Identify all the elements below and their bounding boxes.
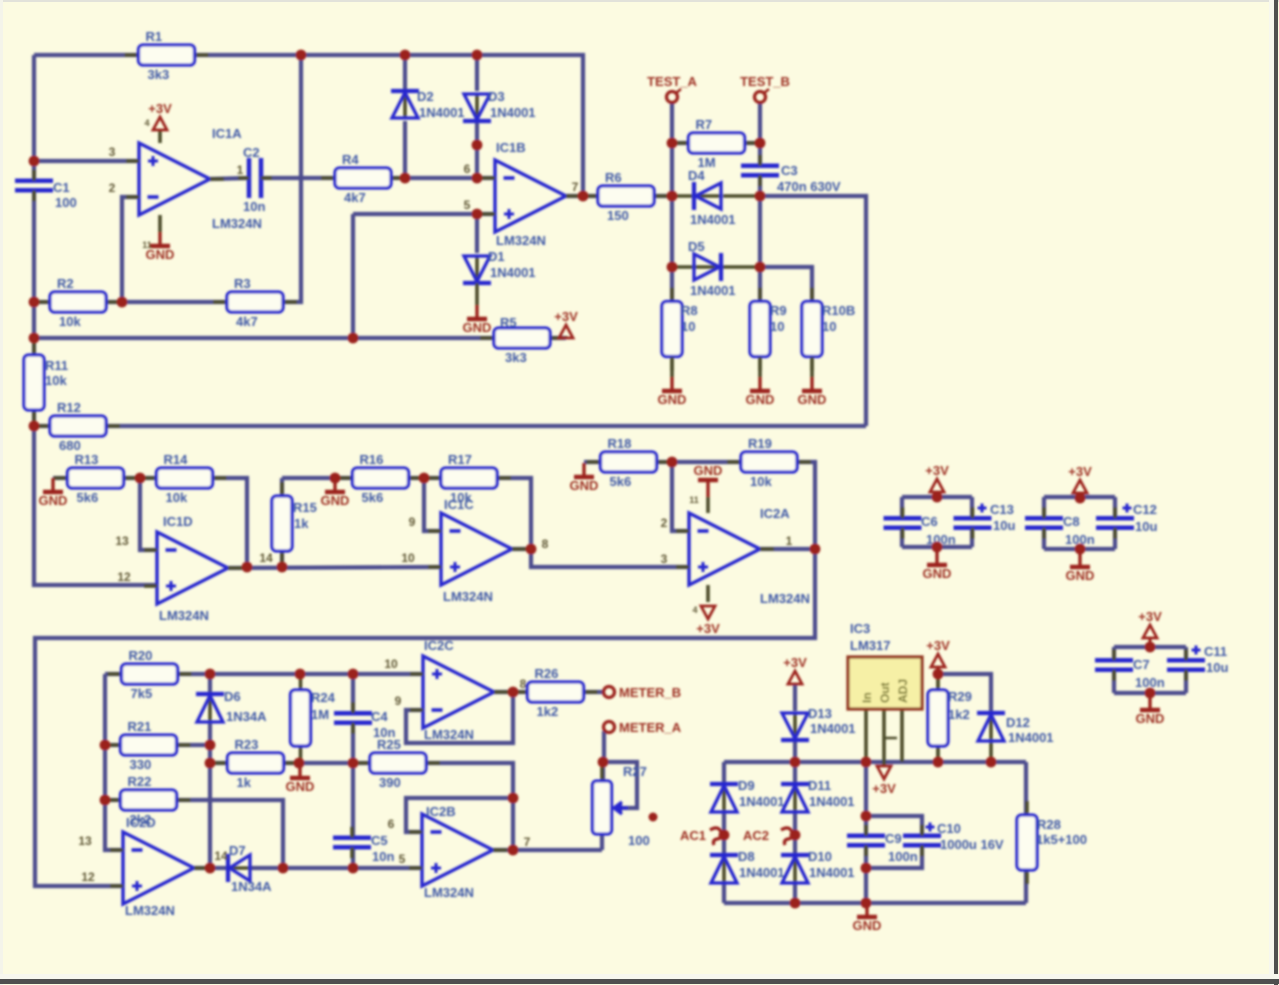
- resistor R13 5k6: [54, 452, 138, 505]
- wire C6C13 box top: [902, 495, 972, 499]
- svg-text:10: 10: [681, 319, 695, 334]
- junction at 405,55: [400, 50, 411, 61]
- bottom dark border: [0, 979, 1279, 984]
- pin number 1: [237, 163, 244, 177]
- +3V supply C7 block: [1138, 609, 1162, 638]
- svg-text:7: 7: [524, 835, 531, 849]
- ground bottom rail: [853, 903, 882, 933]
- svg-text:1N4001: 1N4001: [739, 865, 785, 880]
- ground R23/R24: [286, 764, 315, 794]
- +3V stub IC2A: [706, 585, 710, 602]
- svg-text:R28: R28: [1037, 817, 1061, 832]
- capacitor C2 10n: [238, 145, 272, 214]
- junction at 795,762: [790, 757, 801, 768]
- wire IC2D out to D7: [194, 866, 228, 870]
- svg-text:TEST_A: TEST_A: [647, 74, 697, 89]
- wire C8 lower: [1042, 528, 1046, 549]
- resistor R23 1k: [214, 737, 298, 790]
- svg-text:R17: R17: [448, 452, 472, 467]
- +3V supply C6 block: [925, 463, 949, 492]
- junction at 513,798: [508, 793, 519, 804]
- svg-text:9: 9: [409, 515, 416, 529]
- svg-text:14: 14: [214, 849, 228, 863]
- svg-text:1N4001: 1N4001: [490, 105, 536, 120]
- ground R8: [658, 377, 687, 407]
- svg-text:12: 12: [117, 570, 131, 584]
- wire mid col x210: [208, 745, 212, 868]
- junction at 140,478: [135, 473, 146, 484]
- wire R15 bottom: [280, 551, 284, 567]
- junction at 105,800: [100, 795, 111, 806]
- svg-text:1M: 1M: [311, 707, 329, 722]
- diode D2 1N4001: [391, 89, 465, 120]
- wire R12 left: [34, 424, 50, 428]
- wire bridge left col b: [722, 812, 726, 855]
- svg-text:10u: 10u: [1135, 519, 1157, 534]
- junction at 795,903: [790, 898, 801, 909]
- svg-text:GND: GND: [694, 463, 723, 478]
- connector METER_A: [604, 720, 682, 735]
- wire R4 to IC1B pin6: [390, 176, 495, 180]
- wire IC2A out: [760, 547, 815, 551]
- wire R13 gnd stub row: [53, 476, 68, 480]
- svg-text:LM324N: LM324N: [125, 903, 175, 918]
- svg-text:+3V: +3V: [925, 463, 949, 478]
- resistor R11 10k: [24, 341, 68, 424]
- junction at 1150,647: [1145, 642, 1156, 653]
- svg-text:R21: R21: [128, 719, 152, 734]
- junction at 405,178: [400, 173, 411, 184]
- junction at 1150,693: [1145, 688, 1156, 699]
- wire R21 left: [105, 743, 121, 747]
- +3V stub IC1A: [158, 130, 162, 143]
- junction at 531,549: [526, 544, 537, 555]
- svg-text:C11: C11: [1204, 644, 1227, 659]
- svg-text:1N4001: 1N4001: [809, 794, 855, 809]
- wire R13R14 junction down to pin13: [140, 478, 157, 550]
- resistor R20 7k5: [108, 648, 192, 701]
- wire top rail: [34, 53, 139, 57]
- pin number 3: [109, 145, 116, 159]
- capacitor C13 10u: [954, 502, 1016, 539]
- svg-text:12: 12: [81, 870, 95, 884]
- capacitor C10: [903, 823, 941, 857]
- svg-text:R12: R12: [57, 400, 81, 415]
- resistor R29 1k2: [928, 676, 972, 760]
- wire C10 branch top: [866, 816, 922, 836]
- resistor R24 1M: [291, 676, 336, 760]
- svg-text:10: 10: [770, 319, 784, 334]
- svg-text:+3V: +3V: [554, 309, 578, 324]
- svg-text:10: 10: [401, 551, 415, 565]
- svg-text:1N34A: 1N34A: [226, 709, 267, 724]
- svg-text:GND: GND: [570, 478, 599, 493]
- junction at 672,196: [667, 191, 678, 202]
- junction at 513,692: [508, 687, 519, 698]
- svg-text:C10: C10: [937, 821, 961, 836]
- svg-text:C4: C4: [371, 709, 388, 724]
- wire R2 R3 row: [34, 300, 50, 304]
- potentiometer R27 100: [593, 764, 650, 848]
- ground stub R10B: [810, 357, 814, 377]
- svg-text:D13: D13: [808, 706, 832, 721]
- pin number 6: [464, 162, 471, 176]
- svg-text:10n: 10n: [243, 199, 265, 214]
- wire R15 top: [280, 478, 284, 496]
- svg-text:11: 11: [142, 240, 152, 250]
- wire R2 to R3: [106, 300, 227, 304]
- svg-text:LM324N: LM324N: [443, 589, 493, 604]
- wire R18 gnd stub row: [584, 460, 601, 464]
- svg-text:GND: GND: [286, 779, 315, 794]
- svg-text:D9: D9: [738, 778, 755, 793]
- pin number 9: [395, 694, 402, 708]
- svg-text:GND: GND: [658, 392, 687, 407]
- wire R14 to IC1D out col: [212, 478, 247, 567]
- +3V stub D13: [794, 683, 797, 686]
- wire bridge mid col c: [793, 883, 797, 903]
- wire IC2C pin9 loop: [406, 692, 513, 743]
- svg-text:5k6: 5k6: [77, 490, 99, 505]
- junction at 477,178: [472, 173, 483, 184]
- wire IC2A pin2 drop: [672, 462, 689, 531]
- junction at 34,426: [29, 421, 40, 432]
- wire R7 right: [743, 141, 760, 145]
- wire R22 left: [105, 798, 121, 802]
- wire bottom rail y903: [724, 901, 1026, 905]
- junction at 299,763: [294, 758, 305, 769]
- +3V stub C8: [1079, 493, 1082, 497]
- capacitor C11 10u: [1167, 644, 1228, 681]
- svg-text:R26: R26: [535, 666, 559, 681]
- ground stub R9: [758, 357, 762, 377]
- svg-text:IC3: IC3: [850, 621, 870, 636]
- wire R6 to TEST_A col: [654, 194, 672, 198]
- resistor R15 1k: [272, 482, 317, 565]
- svg-text:R10B: R10B: [822, 303, 855, 318]
- ground IC2A: [694, 463, 723, 513]
- junction at 672,143: [667, 138, 678, 149]
- svg-text:R4: R4: [342, 152, 359, 167]
- wire left vertical upper: [32, 55, 36, 181]
- capacitor C1 100: [15, 170, 77, 210]
- svg-text:D5: D5: [688, 239, 705, 254]
- wire C13 upper: [970, 497, 974, 518]
- diode D5 1N4001: [688, 239, 736, 298]
- junction at 34,338: [29, 333, 40, 344]
- svg-text:5k6: 5k6: [610, 474, 632, 489]
- wire TEST_B column upper: [758, 102, 762, 166]
- svg-text:D8: D8: [738, 849, 755, 864]
- svg-text:R29: R29: [948, 689, 972, 704]
- diode D11 1N4001: [781, 778, 855, 812]
- diode D12 1N4001: [977, 713, 1054, 745]
- svg-text:+3V: +3V: [148, 101, 172, 116]
- svg-text:+3V: +3V: [926, 638, 950, 653]
- pin number 8: [542, 537, 549, 551]
- ground IC1A: [146, 232, 175, 262]
- wire R27 bottom stub: [600, 834, 604, 850]
- svg-text:4k7: 4k7: [236, 314, 258, 329]
- op-amp IC1B: [482, 140, 580, 248]
- wire C5 top: [351, 763, 355, 838]
- op-amp IC2D: [110, 815, 208, 918]
- svg-text:4: 4: [144, 118, 149, 128]
- svg-text:GND: GND: [923, 566, 952, 581]
- svg-text:1k: 1k: [237, 775, 252, 790]
- pin number 12: [81, 870, 95, 884]
- wire R18 to R19: [656, 460, 742, 464]
- junction at 335,478: [330, 473, 341, 484]
- junction at 937,547: [932, 542, 943, 553]
- junction at 866,903: [861, 898, 872, 909]
- wire C4 top: [351, 674, 355, 713]
- wire R3 to top rail: [283, 55, 301, 302]
- svg-text:680: 680: [59, 438, 81, 453]
- svg-text:1N4001: 1N4001: [419, 105, 465, 120]
- svg-text:1k2: 1k2: [948, 707, 970, 722]
- ground C8 block: [1066, 553, 1095, 583]
- wire IC1B out to R6: [566, 194, 599, 198]
- svg-text:1000u 16V: 1000u 16V: [940, 837, 1004, 852]
- svg-text:+3V: +3V: [783, 655, 807, 670]
- svg-text:10u: 10u: [1206, 660, 1228, 675]
- svg-text:1N4001: 1N4001: [690, 212, 736, 227]
- wire left vertical lower to IC1D pin12: [34, 410, 157, 585]
- wire D2 top: [403, 55, 407, 91]
- ground stub IC1A: [158, 215, 162, 232]
- wire top rail right of R1: [194, 55, 583, 196]
- capacitor C9 100n: [847, 825, 918, 864]
- svg-text:13: 13: [115, 534, 129, 548]
- pin number 13: [78, 834, 92, 848]
- junction at 938,674: [933, 669, 944, 680]
- wire D3 top: [475, 55, 479, 91]
- wire C12 lower: [1113, 528, 1117, 549]
- svg-text:GND: GND: [321, 493, 350, 508]
- wire D13 bottom: [793, 741, 797, 762]
- left light edge: [0, 0, 3, 985]
- pin number 10: [401, 551, 415, 565]
- svg-text:METER_B: METER_B: [619, 685, 681, 700]
- wire supply rail y762: [724, 760, 1026, 764]
- op-amp IC1D: [144, 514, 242, 623]
- svg-text:IC2C: IC2C: [424, 638, 454, 653]
- svg-text:390: 390: [379, 775, 401, 790]
- wire IC3 Out pin: [882, 709, 886, 766]
- svg-text:R11: R11: [45, 358, 68, 373]
- wire C7C11 box top: [1114, 645, 1186, 649]
- wire IC3 In pin: [864, 709, 868, 762]
- wire C12 upper: [1113, 497, 1117, 518]
- resistor R3 4k7: [213, 276, 297, 329]
- +3V stub C7: [1149, 638, 1152, 647]
- wire R28 to bottom rail: [1024, 870, 1028, 903]
- svg-text:D6: D6: [224, 689, 241, 704]
- ground D1: [463, 305, 492, 335]
- diode D10 1N4001: [781, 849, 855, 883]
- svg-text:C5: C5: [371, 833, 388, 848]
- svg-text:D4: D4: [688, 168, 705, 183]
- wire R17 right down: [496, 478, 689, 567]
- wire D12 bottom: [989, 742, 993, 762]
- pin number 7: [524, 835, 531, 849]
- pin number 11 (IC1A V-): [142, 240, 152, 250]
- svg-text:C7: C7: [1133, 657, 1150, 672]
- svg-text:1N4001: 1N4001: [810, 721, 856, 736]
- svg-text:D1: D1: [488, 249, 505, 264]
- ground R9: [746, 377, 775, 407]
- svg-text:C1: C1: [53, 180, 70, 195]
- svg-text:4k7: 4k7: [344, 190, 366, 205]
- wire In col to C9: [864, 762, 868, 836]
- svg-text:1N4001: 1N4001: [1008, 730, 1054, 745]
- wire C4 bottom: [351, 723, 355, 763]
- svg-text:ADJ: ADJ: [896, 679, 910, 703]
- svg-text:1N34A: 1N34A: [231, 879, 272, 894]
- svg-text:1N4001: 1N4001: [490, 265, 536, 280]
- svg-text:3k3: 3k3: [505, 350, 527, 365]
- capacitor C4 10n: [334, 702, 395, 740]
- svg-text:1: 1: [237, 163, 244, 177]
- wire C8C12 box top: [1044, 495, 1115, 499]
- svg-text:D3: D3: [488, 89, 505, 104]
- svg-text:100: 100: [55, 195, 77, 210]
- resistor R5 3k3: [480, 315, 564, 365]
- junction at 866,868: [861, 863, 872, 874]
- resistor R2 10k: [36, 276, 120, 329]
- svg-text:+3V: +3V: [1138, 609, 1162, 624]
- wire R27 top stub: [601, 762, 605, 781]
- resistor R10B 10: [802, 288, 855, 371]
- op-amp IC2C: [410, 638, 508, 742]
- op-amp IC2B: [409, 804, 507, 900]
- svg-text:R3: R3: [234, 276, 251, 291]
- svg-text:C3: C3: [781, 163, 798, 178]
- svg-text:10k: 10k: [45, 373, 67, 388]
- junction at 353,338: [348, 333, 359, 344]
- wire C7 lower: [1112, 670, 1116, 693]
- +3V supply C8 block: [1068, 464, 1092, 493]
- svg-text:7k5: 7k5: [131, 686, 153, 701]
- pin number 4 (IC2A V+): [692, 605, 697, 615]
- pin number 2: [661, 516, 668, 530]
- svg-text:1k5+100: 1k5+100: [1036, 832, 1087, 847]
- svg-text:In: In: [860, 692, 874, 703]
- wire R20 row: [105, 672, 123, 676]
- wire long row y426: [106, 424, 866, 428]
- junction at 724,835: [719, 830, 730, 841]
- junction at 210,763: [205, 758, 216, 769]
- wire TEST_B column lower: [758, 175, 762, 301]
- pin number 9: [409, 515, 416, 529]
- junction at 424,478: [419, 473, 430, 484]
- pin number 5: [464, 198, 471, 212]
- top light edge: [0, 0, 1279, 2]
- pin number 14: [214, 849, 228, 863]
- svg-text:3: 3: [661, 552, 668, 566]
- pin number 3: [661, 552, 668, 566]
- resistor R28 1k5+100: [1017, 801, 1087, 884]
- resistor R25 390: [356, 737, 440, 790]
- wire D2 bottom: [403, 121, 407, 178]
- svg-text:1k: 1k: [294, 516, 309, 531]
- ground R16: [321, 478, 350, 508]
- wire bridge mid col a: [793, 762, 797, 784]
- svg-text:1N4001: 1N4001: [690, 283, 736, 298]
- resistor R19 10k: [727, 436, 811, 489]
- ground stub D1: [475, 283, 479, 305]
- wire C8C12 box bottom: [1044, 547, 1115, 551]
- svg-text:R8: R8: [681, 303, 698, 318]
- wire left col bottom section: [105, 674, 123, 850]
- wire +3V node to D12: [938, 674, 991, 711]
- resistor R14 10k: [143, 452, 227, 505]
- junction at 583,196: [578, 191, 589, 202]
- svg-text:10u: 10u: [993, 518, 1015, 533]
- op-amp IC1A: [126, 126, 262, 231]
- wire D6 top: [208, 674, 212, 694]
- svg-text:R6: R6: [605, 170, 622, 185]
- resistor R1 3k3: [125, 29, 209, 82]
- svg-text:GND: GND: [798, 392, 827, 407]
- svg-text:9: 9: [395, 694, 402, 708]
- resistor R18 5k6: [587, 436, 671, 489]
- diode D3 1N4001: [463, 89, 536, 121]
- wire D7 to IC2B pin5: [250, 866, 422, 870]
- svg-text:4: 4: [692, 605, 697, 615]
- junction at 760,267: [755, 262, 766, 273]
- wire R26 to METER_B: [583, 690, 604, 694]
- junction at 866,816: [861, 811, 872, 822]
- junction at 815,549: [810, 544, 821, 555]
- svg-text:D7: D7: [229, 843, 246, 858]
- svg-text:3k3: 3k3: [148, 67, 170, 82]
- wire bridge left col a: [722, 762, 726, 784]
- resistor R16 5k6: [339, 452, 423, 505]
- diode D8 1N4001: [710, 849, 785, 883]
- wire C7C11 box bottom: [1114, 691, 1186, 695]
- right white inner edge: [1269, 0, 1274, 985]
- svg-text:R23: R23: [235, 737, 259, 752]
- wire R16 row left: [282, 476, 353, 480]
- diode D9 1N4001: [710, 778, 785, 812]
- ground R18: [570, 463, 599, 493]
- wire C6 lower: [900, 528, 904, 547]
- junction at 937,497: [932, 492, 943, 503]
- svg-text:D11: D11: [808, 778, 831, 793]
- pin wire D5 anode: [672, 265, 694, 269]
- svg-text:+3V: +3V: [696, 621, 720, 636]
- +3V supply IC3 out (down): [872, 766, 896, 796]
- pin number 10: [384, 657, 398, 671]
- wire C7 upper: [1112, 647, 1116, 660]
- svg-text:1k2: 1k2: [537, 704, 559, 719]
- pin wire D4 anode: [723, 194, 760, 198]
- svg-text:6: 6: [464, 162, 471, 176]
- capacitor C8 100n: [1025, 507, 1095, 547]
- capacitor C5 10n: [333, 827, 394, 864]
- node marker dot: [649, 813, 658, 822]
- svg-text:IC1C: IC1C: [444, 497, 474, 512]
- wire D13 top: [793, 684, 797, 711]
- wire IC1A pin3: [34, 159, 139, 163]
- pin number 11 (IC2A V-): [689, 495, 699, 505]
- svg-text:1N4001: 1N4001: [809, 865, 855, 880]
- right dark border: [1274, 0, 1278, 985]
- junction at 353,763: [348, 758, 359, 769]
- wire D1 anode: [475, 214, 479, 253]
